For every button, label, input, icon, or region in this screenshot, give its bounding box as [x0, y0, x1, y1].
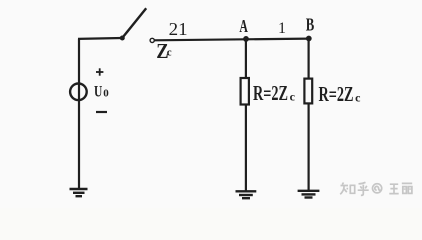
svg-text:1: 1 — [278, 20, 286, 37]
svg-text:A: A — [239, 16, 248, 36]
svg-text:c: c — [290, 89, 296, 103]
svg-text:21: 21 — [169, 19, 188, 39]
svg-text:R=2Z: R=2Z — [319, 82, 354, 106]
svg-text:c: c — [355, 90, 361, 104]
svg-text:c: c — [167, 47, 172, 59]
svg-text:0: 0 — [103, 88, 109, 100]
svg-text:B: B — [306, 15, 315, 35]
svg-text:R=2Z: R=2Z — [253, 81, 288, 105]
svg-text:U: U — [94, 81, 102, 100]
